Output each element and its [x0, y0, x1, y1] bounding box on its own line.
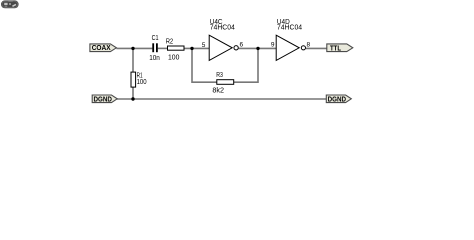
svg-text:8k2: 8k2: [212, 86, 224, 95]
svg-text:74HC04: 74HC04: [277, 23, 302, 32]
svg-text:8: 8: [306, 41, 310, 48]
svg-text:100: 100: [137, 77, 147, 86]
svg-text:R3: R3: [216, 70, 223, 79]
svg-text:DGND: DGND: [94, 96, 112, 103]
svg-text:5: 5: [202, 42, 206, 49]
svg-text:6: 6: [239, 42, 243, 49]
svg-text:TTL: TTL: [330, 45, 342, 52]
svg-text:DGND: DGND: [328, 96, 346, 103]
svg-text:10n: 10n: [149, 53, 160, 62]
svg-text:R2: R2: [166, 37, 174, 46]
svg-text:9: 9: [271, 42, 275, 49]
svg-text:74HC04: 74HC04: [210, 23, 235, 32]
svg-text:100: 100: [168, 52, 179, 61]
svg-text:C1: C1: [152, 33, 159, 42]
svg-text:COAX: COAX: [92, 45, 111, 52]
